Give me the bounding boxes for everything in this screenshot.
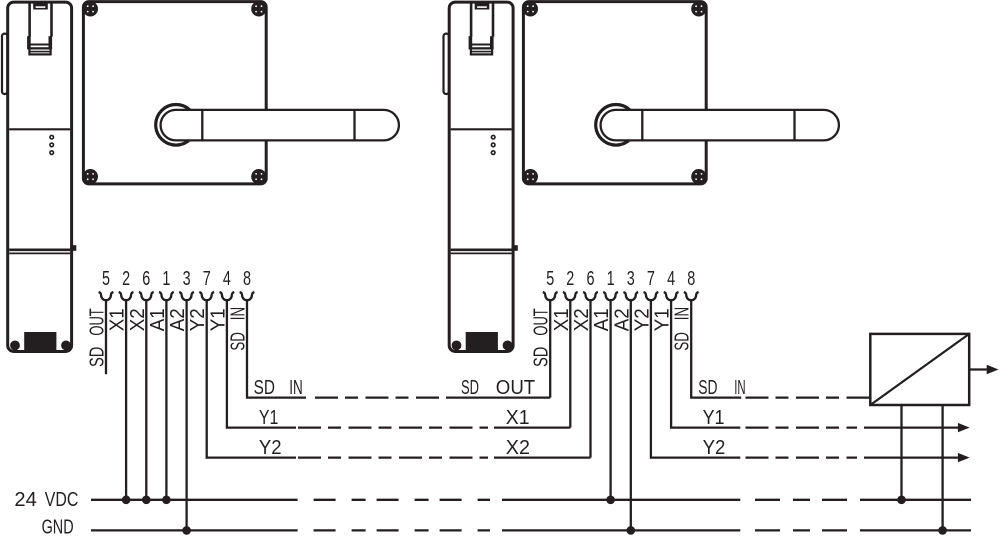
bolt foot line (module 1) bbox=[30, 51, 49, 53]
bolt bracket left (module 2) bbox=[469, 36, 473, 48]
GND bus dashed b bbox=[755, 529, 866, 531]
bolt cap slot (module 1) bbox=[36, 6, 46, 8]
24 VDC bus dashed b bbox=[755, 499, 866, 501]
svg-text:X1: X1 bbox=[506, 407, 530, 429]
svg-text:4: 4 bbox=[667, 268, 675, 290]
safety interlock module 2 body bbox=[449, 2, 513, 351]
junction A2(2)-GND bbox=[626, 526, 635, 535]
terminal socket 4 (module 1) bbox=[220, 292, 235, 300]
bolt bracket left (module 1) bbox=[27, 36, 31, 48]
evaluation 24VDC feed wire bbox=[900, 405, 902, 500]
svg-text:Y1: Y1 bbox=[703, 407, 725, 429]
housing seam lower 2 (module 2) bbox=[451, 252, 512, 254]
SD cable to evaluation unit (dashed) bbox=[746, 396, 871, 398]
evaluation unit U1 bbox=[870, 334, 969, 405]
GND bus solid right bbox=[866, 529, 971, 531]
svg-text:IN: IN bbox=[289, 377, 303, 399]
side tab (module 2) bbox=[512, 245, 518, 251]
svg-text:Y2: Y2 bbox=[703, 437, 726, 459]
terminal socket 8 (module 2) bbox=[684, 292, 699, 300]
svg-text:OUT: OUT bbox=[496, 377, 535, 399]
GND bus solid left bbox=[91, 529, 298, 531]
junction A1-24VDC bbox=[162, 495, 171, 504]
plate screw bottom-left (1) bbox=[83, 169, 98, 184]
bolt foot (module 2) bbox=[471, 48, 492, 54]
wire A1 module 2 to 24VDC bbox=[609, 300, 611, 500]
LED indicator 1 (module 2) bbox=[491, 135, 495, 139]
bolt foot (module 1) bbox=[29, 48, 50, 54]
wire SD OUT module 1 (unconnected stub) bbox=[105, 300, 107, 374]
svg-text:8: 8 bbox=[243, 268, 251, 290]
Y1 output line with arrow bbox=[864, 426, 958, 428]
wire A2 module 1 to GND bbox=[185, 300, 187, 530]
bolt cap (module 2) bbox=[475, 2, 490, 9]
terminal socket 2 (module 2) bbox=[563, 292, 578, 300]
wire X1 module 1 to 24VDC bbox=[125, 300, 127, 500]
junction X1-24VDC bbox=[122, 495, 131, 504]
evaluation unit diagonal bbox=[870, 334, 969, 405]
wire Y1 module 1 bbox=[227, 300, 296, 428]
wire SD OUT module 2 bbox=[457, 300, 550, 398]
bolt bracket base (module 2) bbox=[469, 47, 494, 49]
24 VDC bus solid mid bbox=[502, 499, 740, 501]
safety interlock module 1 body bbox=[8, 2, 72, 351]
svg-text:VDC: VDC bbox=[45, 489, 79, 511]
terminal socket 4 (module 2) bbox=[664, 292, 679, 300]
cable gland (module 2) bbox=[466, 332, 498, 351]
terminal socket 6 (module 2) bbox=[583, 292, 598, 300]
handle escutcheon plate 2 bbox=[523, 2, 706, 184]
terminal socket 2 (module 1) bbox=[119, 292, 134, 300]
junction A2-GND bbox=[182, 526, 191, 535]
bolt cap (module 1) bbox=[33, 2, 48, 9]
terminal socket 3 (module 1) bbox=[179, 292, 194, 300]
svg-text:6: 6 bbox=[142, 268, 150, 290]
24 VDC bus solid left bbox=[91, 499, 298, 501]
svg-text:2: 2 bbox=[566, 268, 574, 290]
svg-text:1: 1 bbox=[162, 268, 170, 290]
housing seam lower 2 (module 1) bbox=[9, 252, 70, 254]
svg-text:SD: SD bbox=[254, 377, 275, 399]
svg-text:5: 5 bbox=[102, 268, 110, 290]
svg-text:Y2: Y2 bbox=[259, 437, 282, 459]
svg-text:7: 7 bbox=[647, 268, 655, 290]
wire A1 module 1 to 24VDC bbox=[165, 300, 167, 500]
svg-text:3: 3 bbox=[183, 268, 191, 290]
junction X2-24VDC bbox=[142, 495, 151, 504]
svg-text:1: 1 bbox=[607, 268, 615, 290]
housing seam lower (module 1) bbox=[9, 249, 70, 252]
plate screw top-left (2) bbox=[523, 1, 538, 16]
bolt bracket base (module 1) bbox=[27, 47, 52, 49]
locking bolt guide right (module 1) bbox=[50, 2, 53, 37]
Y1 output cable (dashed) bbox=[746, 426, 858, 428]
mounting clip of module 1 bbox=[2, 34, 7, 94]
handle boss ring (1) bbox=[156, 105, 197, 146]
terminal socket 1 (module 1) bbox=[159, 292, 174, 300]
LED indicator 3 (module 1) bbox=[50, 151, 54, 155]
terminal socket 5 (module 2) bbox=[543, 292, 558, 300]
svg-text:SD: SD bbox=[698, 377, 717, 399]
bottom screw right (module 1) bbox=[61, 341, 71, 351]
door handle lever 2 bbox=[601, 110, 839, 140]
LED indicator 3 (module 2) bbox=[491, 151, 495, 155]
svg-text:24: 24 bbox=[14, 489, 36, 511]
bolt cap slot (module 2) bbox=[477, 6, 487, 8]
SD interconnect cable (dashed) bbox=[315, 396, 457, 398]
wire SD IN module 2 bbox=[691, 300, 741, 398]
wire A2 module 2 to GND bbox=[630, 300, 632, 530]
wire X2 module 1 to 24VDC bbox=[145, 300, 147, 500]
plate screw bottom-left (2) bbox=[523, 169, 538, 184]
door handle lever 1 bbox=[161, 110, 399, 140]
lever grip line a (2) bbox=[641, 110, 643, 140]
terminal socket 3 (module 2) bbox=[623, 292, 638, 300]
bottom screw left (module 1) bbox=[10, 341, 20, 351]
svg-text:X2: X2 bbox=[506, 437, 530, 459]
side tab (module 1) bbox=[70, 245, 76, 251]
bolt bracket shelf (module 1) bbox=[31, 44, 49, 46]
lever grip line b (2) bbox=[793, 110, 795, 140]
junction U1-24VDC bbox=[897, 495, 906, 504]
housing seam lower (module 2) bbox=[451, 249, 512, 252]
bottom screw left (module 2) bbox=[452, 341, 462, 351]
Y2 output line with arrow bbox=[864, 456, 958, 458]
Y1 arrowhead bbox=[958, 423, 970, 432]
bolt bracket right (module 1) bbox=[49, 36, 53, 48]
wire Y2 module 2 bbox=[651, 300, 740, 458]
handle escutcheon plate 1 bbox=[83, 2, 266, 184]
housing seam upper (module 1) bbox=[9, 128, 70, 130]
plate screw bottom-right (2) bbox=[691, 169, 706, 184]
svg-text:IN: IN bbox=[734, 377, 745, 399]
Y2 arrowhead bbox=[958, 453, 970, 462]
plate screw top-right (2) bbox=[691, 1, 706, 16]
plate screw bottom-right (1) bbox=[251, 169, 266, 184]
bottom screw right (module 2) bbox=[503, 341, 513, 351]
wire Y1 module 2 bbox=[671, 300, 740, 428]
svg-text:Y1: Y1 bbox=[259, 407, 278, 429]
24 VDC bus solid right bbox=[866, 499, 971, 501]
wire X1 module 2 bbox=[494, 300, 570, 428]
lever grip line b (1) bbox=[353, 110, 355, 140]
housing seam upper (module 2) bbox=[451, 128, 512, 130]
svg-text:SD: SD bbox=[461, 377, 479, 399]
svg-text:4: 4 bbox=[223, 268, 231, 290]
LED indicator 2 (module 1) bbox=[50, 143, 54, 147]
handle boss ring (2) bbox=[596, 105, 637, 146]
locking bolt guide right (module 2) bbox=[492, 2, 495, 37]
bolt foot line (module 2) bbox=[472, 51, 491, 53]
plate screw top-right (1) bbox=[251, 1, 266, 16]
svg-text:2: 2 bbox=[122, 268, 130, 290]
terminal socket 7 (module 2) bbox=[644, 292, 659, 300]
plate screw top-left (1) bbox=[83, 1, 98, 16]
LED indicator 1 (module 1) bbox=[50, 135, 54, 139]
junction U1-GND bbox=[938, 526, 947, 535]
Y1 interconnect cable (dashed) bbox=[298, 426, 488, 428]
evaluation output line bbox=[969, 368, 987, 370]
bolt bracket shelf (module 2) bbox=[472, 44, 490, 46]
Y2 output cable (dashed) bbox=[746, 456, 858, 458]
svg-text:5: 5 bbox=[546, 268, 554, 290]
terminal socket 1 (module 2) bbox=[603, 292, 618, 300]
junction A1(2)-24VDC bbox=[606, 495, 615, 504]
wire X2 module 2 bbox=[494, 300, 591, 458]
wire Y2 module 1 bbox=[207, 300, 296, 458]
Y2 interconnect cable (dashed) bbox=[298, 456, 488, 458]
cable gland (module 1) bbox=[24, 332, 56, 351]
svg-text:8: 8 bbox=[687, 268, 695, 290]
terminal socket 5 (module 1) bbox=[99, 292, 114, 300]
bolt bracket right (module 2) bbox=[490, 36, 494, 48]
locking bolt guide left (module 2) bbox=[470, 2, 473, 37]
lever grip line a (1) bbox=[201, 110, 203, 140]
svg-text:GND: GND bbox=[42, 517, 74, 539]
locking bolt guide left (module 1) bbox=[28, 2, 31, 37]
terminal socket 6 (module 1) bbox=[139, 292, 154, 300]
terminal socket 8 (module 1) bbox=[240, 292, 255, 300]
mounting clip of module 2 bbox=[444, 34, 449, 94]
GND bus dashed a bbox=[314, 529, 490, 531]
24 VDC bus dashed a bbox=[314, 499, 490, 501]
terminal socket 7 (module 1) bbox=[199, 292, 214, 300]
svg-text:6: 6 bbox=[587, 268, 595, 290]
wire SD IN module 1 bbox=[247, 300, 306, 398]
evaluation GND feed wire bbox=[941, 405, 943, 530]
svg-text:3: 3 bbox=[627, 268, 635, 290]
svg-text:7: 7 bbox=[203, 268, 211, 290]
GND bus solid mid bbox=[502, 529, 740, 531]
evaluation output arrowhead bbox=[987, 365, 999, 374]
LED indicator 2 (module 2) bbox=[491, 143, 495, 147]
